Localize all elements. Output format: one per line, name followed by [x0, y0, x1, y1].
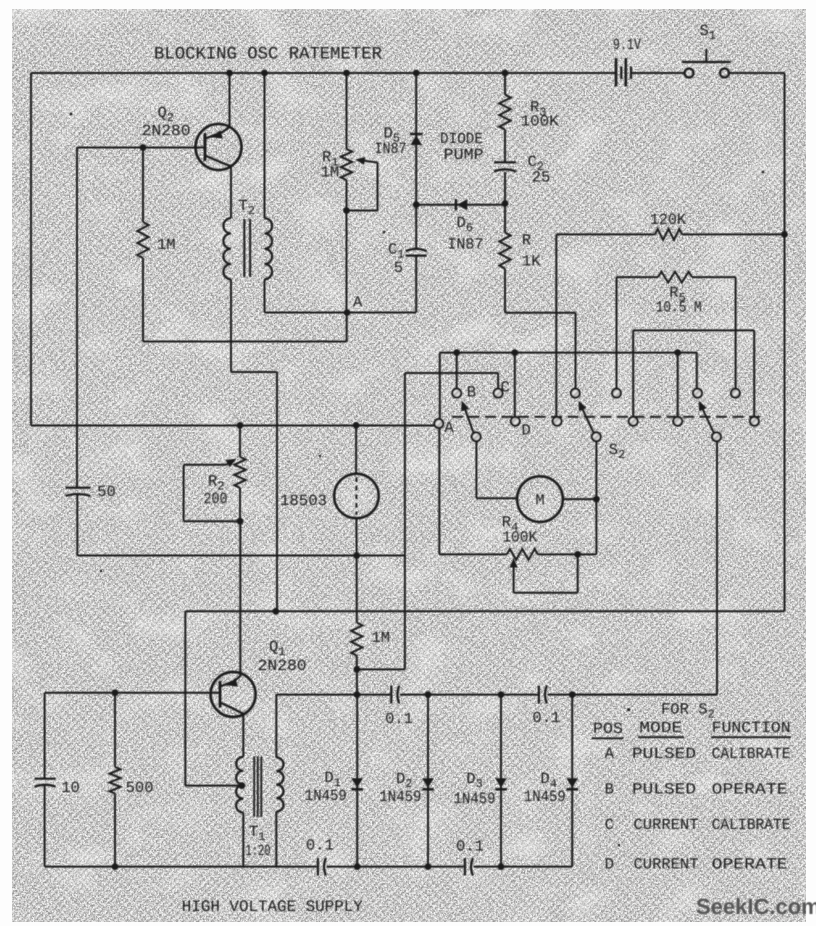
resistor 1M (multiplier bleed) [356, 556, 358, 623]
T1 tap junction [239, 782, 246, 789]
potentiometer R4 100K [507, 549, 538, 560]
wire T2 primary bottom staircase [230, 279, 232, 372]
svg-text:120K: 120K [650, 211, 687, 229]
scan speck [383, 231, 386, 234]
svg-text:MODE: MODE [639, 719, 682, 737]
wire left low vertical [44, 693, 46, 778]
S2 pole 2 moving contact [592, 432, 601, 441]
scan speck [618, 844, 620, 846]
svg-text:D: D [324, 769, 333, 787]
svg-text:A: A [353, 293, 363, 311]
capacitor 0.1 (bottom left) [317, 858, 319, 876]
transistor Q2 2N280 [196, 124, 242, 170]
svg-text:PULSED: PULSED [632, 781, 696, 799]
wire right border [784, 73, 786, 611]
wire bottom rail [45, 866, 317, 868]
svg-text:2: 2 [618, 448, 625, 462]
wire T2 secondary bottom to node A [264, 279, 266, 312]
S2 lower contact 5 [673, 417, 682, 426]
svg-text:100K: 100K [521, 113, 560, 131]
potentiometer R2 200 [239, 425, 241, 457]
S2 upper contact B [452, 389, 461, 398]
svg-text:3: 3 [476, 777, 483, 791]
wire 120K to S2 lower contact 3 [555, 234, 557, 416]
wire 50 cap to bottom rail [76, 495, 78, 556]
wire R1 wiper loop [359, 160, 378, 163]
battery 9.1V [615, 58, 618, 87]
S2 pole 1 arrow [463, 405, 473, 433]
S2 lower contact 6 [750, 417, 759, 426]
resistor R3 100K [504, 73, 506, 95]
svg-text:D: D [396, 770, 405, 788]
svg-text:D: D [605, 856, 614, 874]
transformer T2 [230, 166, 232, 218]
svg-text:2N280: 2N280 [142, 122, 191, 140]
transistor Q1 2N280 [211, 672, 256, 717]
diode D6 1N87 [416, 204, 505, 206]
wire HV top rail [276, 694, 390, 696]
svg-text:1N459: 1N459 [305, 787, 347, 805]
wire R5 left to upper contact 4 [616, 277, 618, 389]
svg-text:C: C [388, 241, 397, 259]
svg-text:IN87: IN87 [375, 140, 407, 158]
switch S2 dashed line [452, 416, 760, 418]
svg-text:S: S [609, 441, 618, 459]
svg-text:1N459: 1N459 [379, 788, 421, 806]
bottom rail junction dots [354, 863, 361, 870]
wire meter right [563, 498, 597, 500]
svg-text:PULSED: PULSED [632, 745, 696, 763]
S2 pole 3 moving contact [712, 432, 721, 441]
wire Q1 base [45, 692, 220, 694]
wire bus to contact D [514, 353, 516, 417]
wire staircase to T1 tap [184, 611, 186, 785]
resistor 500 [114, 693, 116, 767]
capacitor C2 25 [494, 161, 516, 163]
wire lower-contact-4 to lower-contact-6 [633, 329, 754, 331]
svg-text:SeekIC.com: SeekIC.com [696, 894, 816, 919]
svg-text:1N459: 1N459 [454, 790, 496, 808]
diode D1 1N459 [356, 695, 358, 867]
svg-text:1K: 1K [522, 253, 541, 271]
wire contact A down to R4 [438, 428, 440, 555]
svg-text:100K: 100K [502, 529, 538, 547]
svg-text:200: 200 [204, 490, 228, 508]
wire long left horizontal [31, 425, 435, 427]
svg-text:10: 10 [61, 779, 80, 797]
resistor R 1K [499, 233, 510, 269]
svg-text:500: 500 [126, 779, 154, 797]
wire R4 wiper loop [577, 554, 579, 592]
svg-text:2N280: 2N280 [258, 657, 307, 675]
wire bus to lower contact 5 [677, 353, 679, 417]
svg-text:25: 25 [532, 169, 551, 187]
svg-text:CURRENT: CURRENT [634, 856, 699, 874]
wire top rail battery-to-S1 [631, 72, 685, 74]
svg-text:CURRENT: CURRENT [634, 816, 699, 834]
svg-text:6: 6 [466, 221, 473, 235]
svg-text:0.1: 0.1 [532, 709, 560, 727]
S2 pole 3 arrow [701, 405, 714, 434]
scan speck [627, 708, 630, 711]
svg-text:Q: Q [158, 104, 167, 122]
svg-text:0.1: 0.1 [456, 838, 484, 856]
capacitor 10 [35, 778, 56, 780]
wire HV feedback horizontal [185, 610, 784, 612]
svg-text:CALIBRATE: CALIBRATE [712, 745, 791, 763]
capacitor 0.1 (HV top right) [538, 686, 540, 704]
wire 1M-bottom horizontal [143, 341, 347, 343]
wire node A branch down [346, 313, 348, 342]
svg-text:D: D [522, 422, 531, 440]
svg-text:D: D [466, 770, 475, 788]
wire Q2 base [77, 147, 205, 149]
diode D5 1N87 [410, 133, 423, 135]
svg-text:D: D [540, 770, 549, 788]
svg-text:HIGH VOLTAGE SUPPLY: HIGH VOLTAGE SUPPLY [182, 898, 363, 916]
svg-text:PUMP: PUMP [444, 146, 484, 164]
svg-text:1:20: 1:20 [246, 842, 271, 860]
svg-text:18503: 18503 [280, 492, 327, 510]
wire R2 to Q1 emitter [239, 521, 241, 674]
svg-text:B: B [605, 781, 614, 799]
svg-text:M: M [535, 492, 544, 510]
wire S2 bus [440, 352, 697, 354]
wire Q2 emitter to rail [229, 73, 231, 126]
svg-text:R: R [522, 232, 531, 250]
svg-text:OPERATE: OPERATE [712, 781, 788, 799]
resistor R5 10.5M [617, 276, 659, 278]
wire pole1 to meter [475, 441, 477, 498]
scan speck [762, 171, 765, 174]
capacitor C1 5 [415, 205, 417, 250]
svg-text:FUNCTION: FUNCTION [712, 719, 791, 737]
wire contact C to 1M-bottom (long) [405, 372, 498, 374]
svg-text:S: S [700, 22, 709, 40]
wire R2 wiper box [184, 464, 226, 466]
S2 lower contact 3 [553, 417, 562, 426]
svg-text:1M: 1M [157, 236, 176, 254]
junction D5/D6 [413, 201, 420, 208]
svg-text:IN87: IN87 [447, 236, 483, 254]
svg-text:1: 1 [709, 29, 716, 43]
svg-text:D: D [457, 214, 466, 232]
svg-text:C: C [501, 379, 510, 397]
svg-text:5: 5 [394, 259, 403, 277]
meter M [517, 476, 563, 522]
diode D3 1N459 [500, 695, 502, 867]
svg-text:BLOCKING OSC RATEMETER: BLOCKING OSC RATEMETER [154, 45, 382, 65]
diode D2 1N459 [427, 695, 429, 867]
wire R-1K to S2 upper contact 3 [505, 312, 576, 314]
svg-text:T: T [249, 823, 258, 841]
switch S1 [685, 69, 694, 78]
svg-text:R: R [208, 473, 217, 491]
S2 lower contact D [511, 417, 520, 426]
wire pole3 to HV output [716, 441, 718, 694]
wire top rail left segment [31, 72, 616, 74]
wire C-line corner to 1M bottom [357, 668, 405, 670]
svg-text:POS: POS [593, 720, 623, 738]
svg-text:C: C [605, 816, 614, 834]
wire left border [30, 73, 32, 426]
svg-text:10.5 M: 10.5 M [656, 299, 702, 317]
svg-text:50: 50 [97, 483, 116, 501]
S2 upper contact C [494, 389, 503, 398]
svg-text:FOR S: FOR S [661, 701, 708, 719]
capacitor 0.1 (HV top left) [390, 686, 392, 704]
S2 upper contact 5 [693, 389, 702, 398]
S2 pole 2 arrow [580, 405, 593, 434]
transformer T1 1:20 [242, 714, 244, 757]
wire node A horizontal [265, 312, 417, 314]
scan speck [319, 455, 321, 457]
wire Q2-base-corner down to 50 cap [76, 148, 78, 488]
wire T2 secondary to rail [264, 73, 266, 218]
svg-text:1M: 1M [371, 629, 390, 647]
scan speck [70, 113, 73, 116]
svg-text:CALIBRATE: CALIBRATE [712, 816, 791, 834]
wire R5 right to upper contact 6 [735, 277, 737, 389]
S2 upper contact 4 [612, 389, 621, 398]
wire bus to contact B [456, 353, 458, 389]
node A [344, 309, 351, 316]
S2 pole 1 moving contact [472, 432, 481, 441]
junction C2/D6/R [504, 172, 506, 233]
svg-text:B: B [467, 384, 476, 402]
svg-text:A: A [444, 419, 454, 437]
svg-text:T: T [239, 197, 248, 215]
svg-text:OPERATE: OPERATE [712, 856, 788, 874]
tube 18503 [355, 425, 357, 473]
svg-text:2: 2 [248, 204, 255, 218]
svg-text:A: A [605, 745, 615, 763]
S2 upper contact 3 [571, 389, 580, 398]
capacitor 0.1 (bottom right) [464, 858, 466, 876]
wire pole2 down [595, 441, 597, 554]
svg-text:1M: 1M [321, 164, 340, 182]
wire T1 secondary top [275, 695, 277, 758]
capacitor 50 [66, 487, 91, 489]
resistor 1M (Q2 base) [142, 148, 144, 223]
svg-text:1N459: 1N459 [524, 788, 566, 806]
diode D4 1N459 [571, 695, 573, 867]
S2 lower contact A [434, 419, 443, 428]
wire top rail S1-to-right-border [729, 72, 785, 74]
resistor 120K [556, 233, 655, 235]
S2 lower contact 4 [629, 417, 638, 426]
svg-text:9.1V: 9.1V [613, 36, 642, 54]
svg-text:Q: Q [269, 638, 278, 656]
wire D5/C1 line [415, 73, 417, 205]
S2 upper contact 6 [731, 389, 740, 398]
svg-text:0.1: 0.1 [385, 710, 413, 728]
scan speck [100, 570, 102, 572]
wire mid bottom rail [77, 555, 405, 557]
svg-text:0.1: 0.1 [306, 837, 334, 855]
potentiometer R1 1M [346, 73, 348, 149]
